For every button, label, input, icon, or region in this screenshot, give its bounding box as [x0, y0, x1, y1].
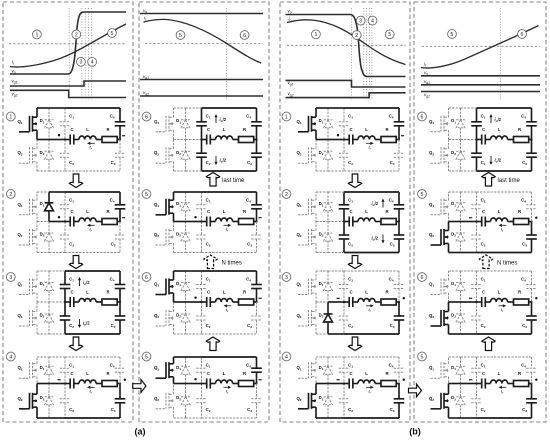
- current annotation io/2 down (cell 2.1): [214, 156, 226, 165]
- capacitor C3 (cell 3.4): [390, 384, 405, 419]
- wire bottom rail (cell 2.2): [174, 252, 257, 254]
- wire top rail (cell 4.2): [449, 191, 532, 193]
- flow arrow down a1 step3-4: [69, 337, 82, 351]
- svg-text:6: 6: [243, 33, 246, 39]
- capacitor C4 (cell 1.2): [110, 192, 126, 222]
- diode D1 (cell 2.3): [176, 271, 190, 302]
- polarity marks (cell 1.1): [58, 134, 125, 136]
- capacitor C2 snubber (cell 2.3): [196, 302, 207, 334]
- svg-text:3: 3: [79, 60, 82, 66]
- inductor L (cell 1.1): [86, 127, 89, 132]
- wire top rail (cell 3.2): [316, 191, 399, 193]
- capacitor C2 snubber (cell 4.2): [471, 222, 482, 253]
- node 2.4 circled step number 5: [142, 352, 151, 361]
- diode D2 (cell 1.4): [40, 384, 54, 419]
- resistor R (cell 2.3): [243, 290, 247, 295]
- svg-text:L: L: [86, 371, 89, 376]
- transistor Q1 (cell 3.2): [296, 192, 316, 222]
- node 4.1 circled step number 6: [418, 112, 427, 121]
- wire bottom rail (cell 3.3): [316, 333, 399, 335]
- diode D2 (cell 2.4): [176, 384, 190, 419]
- node 3.1 circled step number 1: [282, 112, 291, 121]
- inductor L (cell 1.2): [86, 209, 89, 214]
- wire top rail (cell 2.4): [174, 356, 257, 358]
- transistor Q2 (cell 1.2): [17, 222, 37, 253]
- transistor Q1 (cell 2.2): [154, 192, 174, 222]
- current annotation io/2 up (cell 2.1): [214, 114, 226, 123]
- polarity marks (cell 1.4): [58, 379, 127, 381]
- wire mid rail (cell 4.2): [449, 221, 477, 223]
- capacitor C2 snubber (cell 1.4): [60, 384, 71, 419]
- wire mid rail (cell 2.4): [174, 383, 202, 385]
- capacitor C resonant (cell 1.1): [64, 127, 121, 144]
- capacitor C resonant (cell 1.2): [64, 209, 121, 226]
- current arrow ir (cell 3.3): [366, 304, 374, 313]
- svg-text:C: C: [70, 290, 73, 295]
- node 3.2 circled step number 2: [282, 190, 291, 199]
- caption (b): [409, 427, 421, 437]
- current annotation io/2 down (cell 4.1): [489, 156, 501, 165]
- polarity marks (cell 4.2): [469, 217, 538, 219]
- svg-text:5: 5: [388, 32, 391, 38]
- resistor R (cell 4.1): [518, 127, 522, 132]
- capacitor C2 snubber (cell 3.3): [339, 302, 350, 334]
- waveform labels (b) left: [288, 8, 294, 97]
- svg-text:(b): (b): [409, 427, 421, 437]
- svg-text:1: 1: [285, 114, 288, 120]
- wire mid rail (cell 4.4): [449, 383, 477, 385]
- waveform gate signal vg2 (b) right: [421, 91, 540, 93]
- capacitor C4 (cell 3.4): [389, 357, 405, 384]
- waveform zero dashed line (b) left: [287, 44, 406, 46]
- wire top rail (cell 1.1): [37, 107, 120, 109]
- svg-text:(a): (a): [135, 427, 146, 437]
- flow arrow up b2 last time: [482, 173, 495, 187]
- waveform gate signal vg1 (b) left: [286, 80, 406, 87]
- current arrow ir (cell 1.4): [87, 386, 95, 395]
- capacitor C3 (cell 1.4): [111, 384, 126, 419]
- svg-text:C: C: [70, 371, 73, 376]
- waveform curve vo (a) right: [140, 13, 263, 15]
- diode D1 (cell 3.1): [319, 108, 333, 140]
- inductor L (cell 3.2): [365, 209, 368, 214]
- waveform labels (b) right: [424, 62, 430, 99]
- flow arrow up b2 bottom: [482, 337, 495, 351]
- current arrow ir (cell 3.4): [366, 386, 374, 395]
- transistor Q1 (cell 2.3): [154, 271, 174, 302]
- waveform gate signal vg1 (b) right: [421, 84, 540, 86]
- diode D1 (cell 1.4): [40, 357, 54, 384]
- svg-text:2: 2: [355, 33, 358, 39]
- inductor L (cell 4.4): [498, 371, 501, 376]
- wire mid rail (cell 3.2): [316, 221, 344, 223]
- resistor R (cell 1.4): [106, 371, 110, 376]
- node 2.2 circled step number 5: [142, 190, 151, 199]
- inductor L (cell 1.3): [86, 290, 89, 295]
- svg-text:5: 5: [451, 32, 454, 38]
- diode D1 (cell 3.3): [319, 271, 333, 302]
- svg-text:6: 6: [521, 32, 524, 38]
- svg-text:L: L: [498, 209, 501, 214]
- waveform curve ir (b) left: [287, 20, 406, 65]
- node 4.2 circled step number 5: [418, 190, 427, 199]
- capacitor C1 snubber (cell 3.1): [339, 108, 350, 140]
- capacitor C2 snubber (cell 1.3): [60, 302, 71, 334]
- wire mid rail (cell 2.2): [174, 221, 202, 223]
- node 1.3 circled step number 3: [6, 273, 15, 282]
- wire bottom rail (cell 1.4): [37, 417, 120, 419]
- flow arrow down a1 step1-2: [69, 174, 82, 188]
- capacitor C3 (cell 4.1): [522, 140, 537, 172]
- diode D1 (cell 1.2): [40, 192, 54, 222]
- diode D1 (cell 4.4): [451, 357, 465, 384]
- svg-text:C: C: [482, 371, 485, 376]
- wire mid rail (cell 3.1): [316, 139, 344, 141]
- svg-text:L: L: [365, 127, 368, 132]
- svg-text:C: C: [70, 209, 73, 214]
- node 2.3 circled step number 6: [142, 273, 151, 282]
- waveform zero dashed line (a) right: [145, 43, 263, 45]
- waveform zero dashed line (a) left: [9, 43, 126, 45]
- capacitor C2 snubber (cell 4.4): [471, 384, 482, 419]
- capacitor C resonant (cell 3.3): [343, 290, 400, 307]
- capacitor C2 snubber (cell 4.3): [471, 302, 482, 334]
- dashed frame column a2: [139, 2, 269, 422]
- capacitor C3 (cell 4.4): [522, 384, 537, 419]
- inductor L (cell 2.2): [223, 209, 226, 214]
- svg-text:6: 6: [145, 275, 148, 281]
- wire bottom rail (cell 3.2): [316, 252, 399, 254]
- capacitor C1 snubber (cell 2.2): [196, 192, 207, 222]
- polarity marks (cell 1.2): [58, 216, 125, 218]
- wire bottom rail (cell 4.4): [449, 417, 532, 419]
- svg-text:L: L: [223, 371, 226, 376]
- current arrow ir (cell 4.3): [499, 304, 507, 313]
- svg-text:5: 5: [421, 354, 424, 360]
- current arrow ir (cell 3.1): [366, 142, 374, 151]
- resistor R (cell 3.1): [385, 127, 389, 132]
- inductor L (cell 3.4): [365, 371, 368, 376]
- transistor Q2 (cell 3.4): [296, 384, 316, 419]
- capacitor C resonant (cell 2.4): [200, 371, 257, 388]
- capacitor C resonant (cell 4.1): [475, 127, 532, 144]
- capacitor C3 (cell 3.3): [390, 302, 405, 334]
- diode D1 (cell 1.1): [40, 108, 54, 140]
- caption (a): [135, 427, 146, 437]
- capacitor C resonant (cell 4.4): [475, 371, 532, 388]
- wire top rail (cell 4.3): [449, 270, 532, 272]
- wire mid rail (cell 3.4): [316, 383, 344, 385]
- node 3.4 circled step number 4: [282, 352, 291, 361]
- svg-text:4: 4: [285, 354, 288, 360]
- svg-text:L: L: [365, 209, 368, 214]
- transistor Q1 (cell 4.4): [429, 357, 449, 384]
- resistor R (cell 3.4): [385, 371, 389, 376]
- svg-text:1: 1: [314, 32, 317, 38]
- capacitor C2 snubber (cell 3.1): [339, 140, 350, 172]
- capacitor C4 (cell 4.2): [521, 192, 537, 222]
- svg-text:4: 4: [371, 19, 374, 25]
- capacitor C3 (cell 4.2): [522, 222, 537, 253]
- current annotation io/2 up (cell 3.2): [372, 199, 385, 208]
- svg-text:5: 5: [145, 354, 148, 360]
- waveform gate signal vg2 (a) right: [140, 95, 263, 97]
- wire bottom rail (cell 4.2): [449, 252, 532, 254]
- capacitor C4 (cell 1.3): [110, 271, 126, 302]
- current annotation io/2 up (cell 4.1): [489, 114, 501, 123]
- svg-text:C: C: [207, 371, 210, 376]
- diode D2 (cell 2.1): [176, 140, 190, 172]
- flow arrow down b1 step3-4: [348, 337, 361, 351]
- wire bottom rail (cell 1.2): [37, 252, 120, 254]
- node 1.2 circled step number 2: [6, 190, 15, 199]
- diode D1 (cell 3.4): [319, 357, 333, 384]
- transistor Q2 (cell 2.4): [154, 384, 174, 419]
- wire top rail (cell 2.1): [174, 107, 257, 109]
- inductor L (cell 3.3): [365, 290, 368, 295]
- inductor L (cell 2.4): [223, 371, 226, 376]
- capacitor C resonant (cell 2.1): [200, 127, 257, 144]
- svg-text:2: 2: [75, 32, 78, 38]
- svg-text:L: L: [498, 127, 501, 132]
- polarity marks (cell 3.1): [337, 134, 404, 136]
- waveform labels (a) right: [143, 8, 149, 96]
- diode D1 (cell 2.4): [176, 357, 190, 384]
- transistor Q1 (cell 1.4): [17, 357, 37, 384]
- inductor L (cell 4.2): [498, 209, 501, 214]
- capacitor C resonant (cell 3.4): [343, 371, 400, 388]
- svg-text:L: L: [223, 290, 226, 295]
- wire bottom rail (cell 1.3): [37, 333, 120, 335]
- capacitor C4 (cell 2.2): [246, 192, 262, 222]
- waveform interval boundary dotted lines (a) left: [69, 8, 91, 100]
- svg-text:5: 5: [111, 31, 114, 37]
- polarity marks (cell 4.4): [469, 379, 538, 381]
- resistor R (cell 2.4): [243, 371, 247, 376]
- wire top rail (cell 2.2): [174, 191, 257, 193]
- current arrow ir (cell 2.4): [224, 386, 232, 395]
- svg-text:C: C: [207, 127, 210, 132]
- svg-text:2: 2: [285, 192, 288, 198]
- polarity marks (cell 3.3): [337, 297, 405, 299]
- resistor R (cell 1.3): [106, 290, 110, 295]
- svg-text:last time: last time: [498, 178, 521, 184]
- flow arrow down a1 step2-3: [69, 256, 82, 269]
- wire top rail (cell 4.4): [449, 356, 532, 358]
- wire top rail (cell 1.3): [37, 270, 120, 272]
- current annotation io/2 up (cell 1.3): [78, 277, 90, 286]
- svg-text:5: 5: [179, 33, 182, 39]
- transistor Q2 (cell 1.4): [17, 384, 37, 419]
- capacitor C1 snubber (cell 4.2): [471, 192, 482, 222]
- interval numbers (a) left: [33, 29, 117, 67]
- capacitor C3 (cell 2.2): [247, 222, 262, 253]
- inductor L (cell 2.3): [223, 290, 226, 295]
- wire bottom rail (cell 4.3): [449, 333, 532, 335]
- flow arrow up a2 last time: [206, 173, 219, 187]
- interval numbers (b) right: [448, 30, 527, 39]
- wire mid rail (cell 1.4): [37, 383, 65, 385]
- waveform curve ir (b) right: [421, 26, 539, 68]
- svg-text:C: C: [207, 209, 210, 214]
- resistor R (cell 2.2): [243, 209, 247, 214]
- capacitor C1 snubber (cell 1.1): [60, 108, 71, 140]
- transistor Q1 (cell 3.1): [296, 108, 316, 140]
- capacitor C2 snubber (cell 3.4): [339, 384, 350, 419]
- svg-text:L: L: [365, 290, 368, 295]
- waveform curve vo (b) left: [286, 15, 406, 77]
- inductor L (cell 4.3): [498, 290, 501, 295]
- wire bottom rail (cell 4.1): [449, 170, 532, 172]
- capacitor C resonant (cell 2.3): [200, 290, 257, 307]
- capacitor C3 (cell 1.3): [111, 302, 126, 334]
- svg-text:4: 4: [9, 354, 12, 360]
- flow arrow right b1 to b2: [409, 384, 422, 397]
- capacitor C3 (cell 4.3): [522, 302, 537, 334]
- svg-text:L: L: [365, 371, 368, 376]
- diode D1 (cell 4.2): [451, 192, 465, 222]
- capacitor C4 (cell 2.4): [246, 357, 262, 384]
- waveform curve ir (a) left: [10, 24, 126, 67]
- diode D1 (cell 3.2): [319, 192, 333, 222]
- inductor L (cell 4.1): [498, 127, 501, 132]
- capacitor C3 (cell 1.2): [111, 222, 126, 253]
- svg-text:C: C: [482, 209, 485, 214]
- capacitor C1 snubber (cell 4.4): [471, 357, 482, 384]
- svg-text:3: 3: [285, 275, 288, 281]
- transistor Q1 (cell 1.3): [17, 271, 37, 302]
- flow arrow right a1 to a2: [133, 380, 146, 393]
- svg-text:C: C: [349, 209, 352, 214]
- capacitor C4 (cell 2.1): [246, 108, 262, 140]
- dashed frame column b2: [414, 2, 546, 422]
- svg-text:C: C: [482, 290, 485, 295]
- diode D1 (cell 2.2): [176, 192, 190, 222]
- resistor R (cell 4.2): [518, 209, 522, 214]
- capacitor C2 snubber (cell 1.1): [60, 140, 71, 172]
- capacitor C3 (cell 2.1): [247, 140, 262, 172]
- current arrow ir (cell 4.4): [499, 386, 507, 395]
- label last time (b): [498, 178, 521, 184]
- resistor R (cell 1.1): [106, 127, 110, 132]
- transistor Q1 (cell 4.3): [429, 271, 449, 302]
- transistor Q2 (cell 3.2): [296, 222, 316, 253]
- node 4.3 circled step number 6: [418, 273, 427, 282]
- wire mid rail (cell 1.3): [37, 301, 65, 303]
- wire top rail (cell 2.3): [174, 270, 257, 272]
- wire top rail (cell 1.2): [37, 191, 120, 193]
- transistor Q2 (cell 1.3): [17, 302, 37, 334]
- capacitor C4 (cell 4.4): [521, 357, 537, 384]
- wire mid rail (cell 3.3): [316, 301, 344, 303]
- current arrow ir (cell 2.2): [224, 224, 232, 233]
- svg-text:L: L: [498, 371, 501, 376]
- capacitor C2 snubber (cell 1.2): [60, 222, 71, 253]
- capacitor C4 (cell 4.3): [521, 271, 537, 302]
- capacitor C4 (cell 3.3): [389, 271, 405, 302]
- node 1.4 circled step number 4: [6, 352, 15, 361]
- svg-text:L: L: [223, 209, 226, 214]
- svg-text:4: 4: [91, 60, 94, 66]
- transistor Q1 (cell 4.1): [429, 108, 449, 140]
- dashed frame column b1: [280, 2, 410, 422]
- waveform interval boundary dotted line (a) right: [225, 8, 227, 100]
- transistor Q1 (cell 2.1): [154, 108, 174, 140]
- capacitor C2 snubber (cell 2.2): [196, 222, 207, 253]
- node 3.3 circled step number 3: [282, 273, 291, 282]
- capacitor C resonant (cell 1.4): [64, 371, 121, 388]
- resistor R (cell 4.3): [518, 290, 522, 295]
- svg-text:N times: N times: [222, 261, 242, 267]
- resistor R (cell 3.2): [385, 209, 389, 214]
- diode D2 (cell 4.4): [451, 384, 465, 419]
- wire top rail (cell 4.1): [449, 107, 532, 109]
- flow arrow down b1 step1-2: [348, 174, 361, 188]
- svg-text:C: C: [70, 127, 73, 132]
- waveform curve ir (a) right: [144, 19, 262, 63]
- capacitor C2 snubber (cell 2.4): [196, 384, 207, 419]
- svg-text:C: C: [207, 290, 210, 295]
- capacitor C resonant (cell 2.2): [200, 209, 257, 226]
- capacitor C1 snubber (cell 2.1): [196, 108, 207, 140]
- wire bottom rail (cell 2.4): [174, 417, 257, 419]
- interval numbers (a) right: [176, 31, 249, 40]
- transistor Q2 (cell 3.3): [296, 302, 316, 334]
- svg-text:C: C: [349, 127, 352, 132]
- wire mid rail (cell 1.2): [37, 221, 65, 223]
- wire bottom rail (cell 1.1): [37, 170, 120, 172]
- resistor R (cell 4.4): [518, 371, 522, 376]
- waveform gate signal vg1 (a) right: [140, 79, 263, 81]
- svg-text:6: 6: [421, 114, 424, 120]
- node 4.4 circled step number 5: [418, 352, 427, 361]
- capacitor C2 snubber (cell 4.1): [471, 140, 482, 172]
- svg-text:L: L: [498, 290, 501, 295]
- polarity marks (cell 2.3): [194, 297, 261, 299]
- svg-text:C: C: [482, 127, 485, 132]
- capacitor C resonant (cell 3.2): [343, 209, 400, 226]
- transistor Q1 (cell 3.3): [296, 271, 316, 302]
- transistor Q2 (cell 1.1): [17, 140, 37, 172]
- capacitor C1 snubber (cell 1.2): [60, 192, 71, 222]
- transistor Q1 (cell 2.4): [154, 357, 174, 384]
- capacitor C4 (cell 3.1): [389, 108, 405, 140]
- svg-text:1: 1: [9, 114, 12, 120]
- svg-text:L: L: [86, 290, 89, 295]
- wire mid rail (cell 4.1): [449, 139, 477, 141]
- capacitor C3 (cell 1.1): [111, 140, 126, 172]
- waveform curve vo (b) right: [421, 75, 540, 77]
- capacitor C1 snubber (cell 2.4): [196, 357, 207, 384]
- resistor R (cell 2.1): [243, 127, 247, 132]
- flow arrow down b1 step2-3: [348, 256, 361, 269]
- svg-text:6: 6: [145, 114, 148, 120]
- waveform gate signal vg1 (a) left: [10, 81, 126, 86]
- capacitor C1 snubber (cell 2.3): [196, 271, 207, 302]
- diode D1 (cell 1.3): [40, 271, 54, 302]
- diode D1 (cell 2.1): [176, 108, 190, 140]
- flow arrow up dashed a2 N times: [204, 255, 217, 269]
- svg-text:5: 5: [145, 192, 148, 198]
- polarity marks (cell 3.4): [337, 379, 405, 381]
- diode D1 (cell 4.3): [451, 271, 465, 302]
- waveform interval boundary dotted line (b) right: [499, 8, 501, 100]
- wire bottom rail (cell 3.1): [316, 170, 399, 172]
- waveform zero dashed line (b) right: [422, 45, 540, 47]
- capacitor C1 snubber (cell 1.3): [60, 271, 71, 302]
- transistor Q2 (cell 3.1): [296, 140, 316, 172]
- transistor Q2 (cell 4.1): [429, 140, 449, 172]
